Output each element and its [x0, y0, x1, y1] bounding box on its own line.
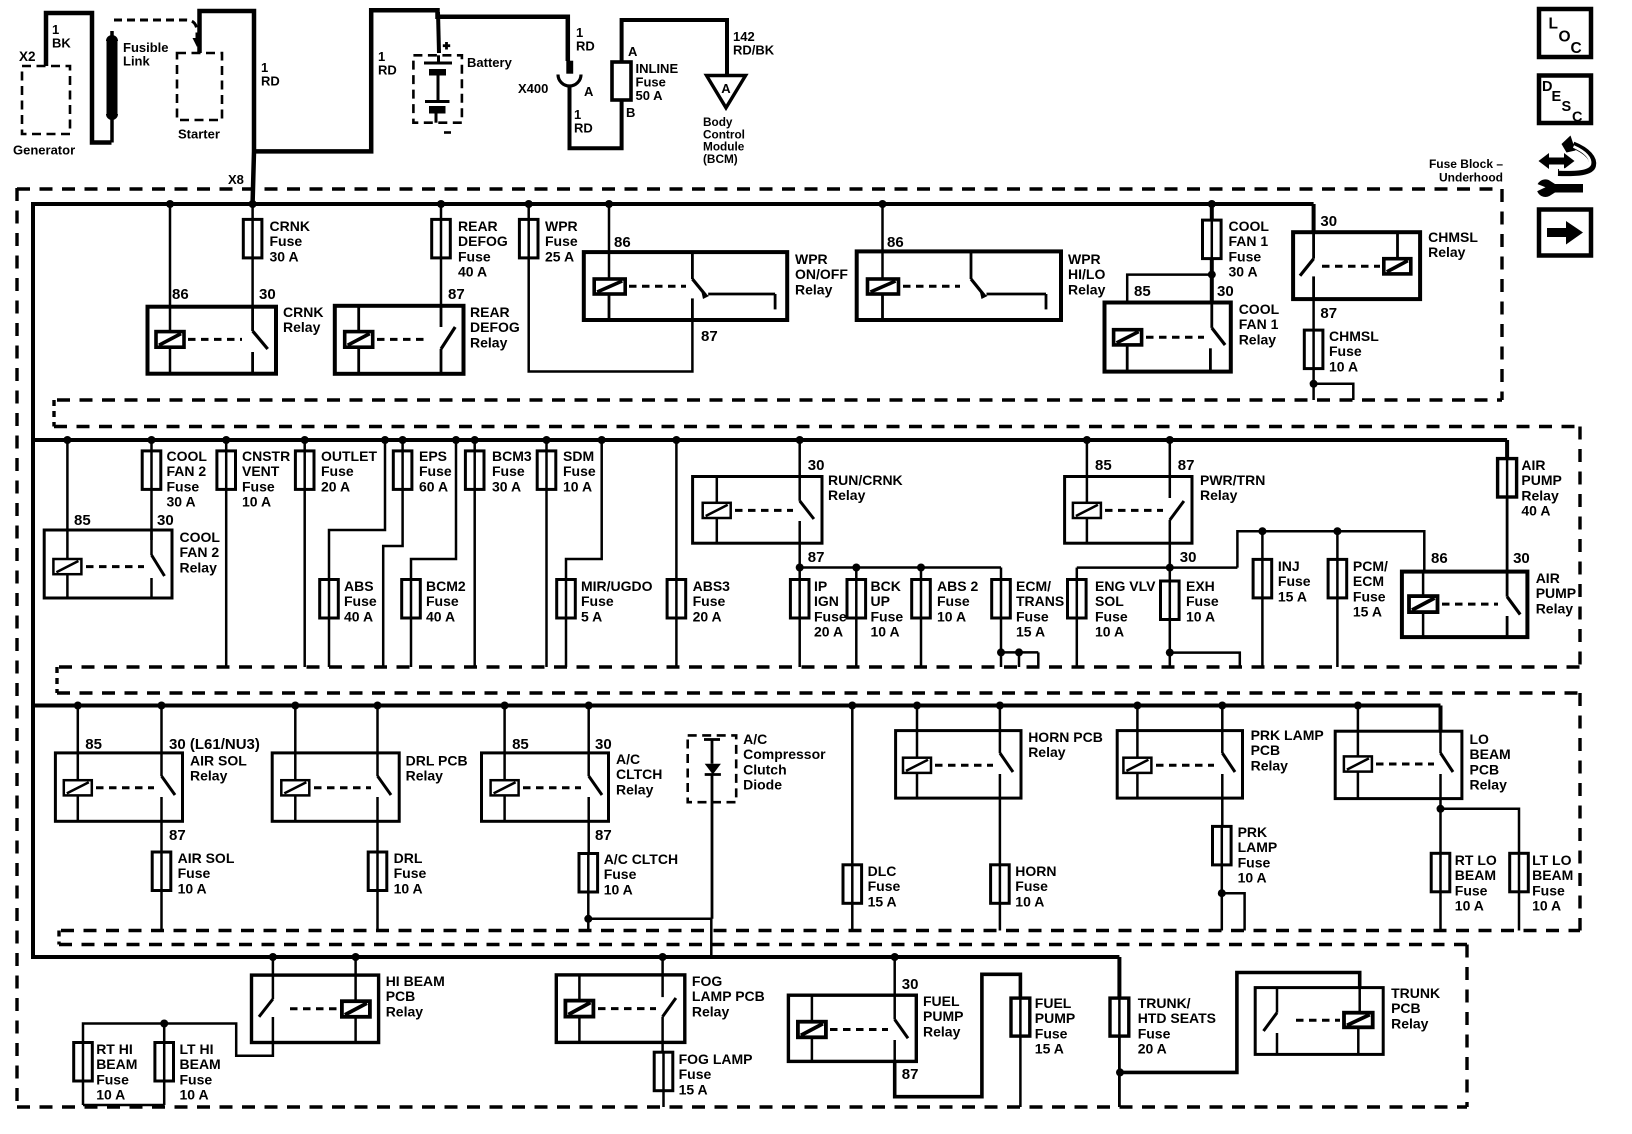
- svg-text:Relay: Relay: [1200, 487, 1238, 503]
- svg-text:RD: RD: [378, 62, 397, 77]
- svg-text:SOL: SOL: [1095, 593, 1124, 609]
- fusible link: [106, 31, 169, 143]
- svg-text:Fuse: Fuse: [868, 878, 901, 894]
- relay FOG LAMP PCB: [556, 973, 764, 1042]
- svg-text:Fuse: Fuse: [458, 248, 491, 264]
- svg-text:87: 87: [701, 328, 718, 345]
- svg-text:ABS 2: ABS 2: [937, 578, 978, 594]
- svg-text:Relay: Relay: [1068, 281, 1106, 297]
- svg-text:30: 30: [259, 286, 276, 303]
- svg-text:87: 87: [1320, 305, 1337, 322]
- relay A/C CLTCH: [482, 751, 663, 821]
- relay WPR HI/LO: [857, 251, 1106, 320]
- svg-text:FAN 2: FAN 2: [167, 463, 207, 479]
- fuse BCK UP 10A: [847, 564, 903, 668]
- fuse PRK LAMP 10A: [1213, 798, 1278, 886]
- fuse block dashed connector left row2-3: [55, 667, 58, 693]
- svg-text:Relay: Relay: [386, 1003, 424, 1019]
- fuse INJ 15A: [1253, 527, 1311, 667]
- svg-text:(BCM): (BCM): [703, 152, 738, 166]
- svg-text:TRANS: TRANS: [1016, 593, 1064, 609]
- svg-text:30: 30: [902, 976, 919, 993]
- svg-text:30 (L61/NU3): 30 (L61/NU3): [169, 736, 260, 753]
- wire bus to COOL FAN 1 fuse: [1208, 200, 1216, 220]
- svg-text:60 A: 60 A: [419, 478, 448, 494]
- svg-text:10 A: 10 A: [1238, 870, 1267, 886]
- svg-text:COOL: COOL: [1239, 301, 1280, 317]
- wire AIR PUMP fuse to relay pin 30: [1507, 497, 1530, 572]
- wire inline fuse to BCM: [622, 20, 775, 74]
- svg-text:FOG: FOG: [692, 973, 722, 989]
- svg-text:TRUNK/: TRUNK/: [1138, 995, 1191, 1011]
- svg-text:S: S: [1562, 99, 1572, 115]
- svg-text:Relay: Relay: [1239, 331, 1277, 347]
- svg-text:ECM/: ECM/: [1016, 578, 1051, 594]
- fuse COOL FAN 1 30A: [1203, 218, 1270, 280]
- svg-text:BK: BK: [52, 35, 71, 50]
- svg-text:Fuse: Fuse: [426, 593, 459, 609]
- icon LOC box: [1539, 9, 1591, 57]
- relay PWR/TRN: [1065, 472, 1266, 543]
- wire bus3 to A/C CLTCH relay pin 85: [501, 702, 529, 781]
- wire WPR fuse to WPR ON/OFF relay pin 87: [529, 258, 718, 372]
- solid box left edge: [31, 202, 35, 959]
- svg-text:ABS3: ABS3: [693, 578, 731, 594]
- svg-text:C: C: [1572, 110, 1583, 126]
- svg-text:AIR SOL: AIR SOL: [178, 850, 235, 866]
- relay CHMSL: [1293, 229, 1478, 299]
- wire generator to fusible link: [46, 13, 112, 143]
- wire bus2 to PWR/TRN relay pin 87: [1166, 436, 1195, 477]
- svg-text:Relay: Relay: [470, 334, 508, 350]
- svg-text:RD/BK: RD/BK: [733, 42, 775, 57]
- wire bus2 to MIR/UGDO fuse: [566, 436, 606, 580]
- svg-text:Fuse: Fuse: [1016, 608, 1049, 624]
- fuse BCM2 40A: [402, 578, 466, 667]
- node PRK LAMP fuse output: [1218, 865, 1245, 931]
- svg-text:Relay: Relay: [1251, 757, 1289, 773]
- svg-text:15 A: 15 A: [868, 893, 897, 909]
- wire X400 to inline fuse: [570, 86, 622, 148]
- fuse REAR DEFOG 40A: [432, 218, 508, 280]
- battery: [413, 42, 512, 133]
- svg-text:A/C: A/C: [616, 751, 640, 767]
- svg-text:ENG VLV: ENG VLV: [1095, 578, 1156, 594]
- node ECM/TRANS branch comb: [997, 648, 1038, 667]
- wire bus to REAR DEFOG fuse: [437, 200, 445, 219]
- svg-text:86: 86: [172, 286, 189, 303]
- svg-text:ABS: ABS: [344, 578, 374, 594]
- svg-text:FAN 1: FAN 1: [1229, 233, 1269, 249]
- svg-text:PWR/TRN: PWR/TRN: [1200, 472, 1265, 488]
- svg-text:RT HI: RT HI: [96, 1041, 133, 1057]
- fuse EPS 60A: [383, 436, 452, 667]
- svg-text:HTD SEATS: HTD SEATS: [1138, 1010, 1216, 1026]
- svg-text:30: 30: [1320, 213, 1337, 230]
- svg-text:BCK: BCK: [871, 578, 901, 594]
- svg-text:10 A: 10 A: [1329, 358, 1358, 374]
- svg-text:Fuse: Fuse: [1353, 588, 1386, 604]
- svg-text:LT LO: LT LO: [1532, 852, 1572, 868]
- svg-text:10 A: 10 A: [1095, 624, 1124, 640]
- svg-text:RD: RD: [261, 73, 280, 88]
- wire OUTLET fuse drop: [295, 436, 377, 667]
- svg-text:RD: RD: [574, 120, 593, 135]
- svg-text:20 A: 20 A: [693, 608, 722, 624]
- body control module BCM triangle: [703, 76, 746, 166]
- svg-text:30 A: 30 A: [270, 248, 299, 264]
- svg-text:A: A: [628, 44, 638, 59]
- svg-text:DEFOG: DEFOG: [470, 319, 520, 335]
- svg-text:PRK: PRK: [1238, 824, 1268, 840]
- wire PWR/TRN pin 30 rail: [1077, 531, 1425, 571]
- svg-text:Fuse: Fuse: [1532, 882, 1565, 898]
- fuse DLC 15A: [843, 702, 900, 931]
- svg-text:Fuse: Fuse: [492, 463, 525, 479]
- svg-text:Link: Link: [123, 53, 150, 68]
- relay HORN PCB: [896, 729, 1103, 798]
- svg-text:BCM2: BCM2: [426, 578, 466, 594]
- node LO BEAM output split: [1437, 799, 1520, 854]
- svg-text:15 A: 15 A: [679, 1081, 708, 1097]
- wire RUN/CRNK relay pin 87 rail: [796, 543, 1001, 571]
- svg-text:PCB: PCB: [1470, 761, 1500, 777]
- fuse TRUNK/HTD SEATS 20A: [1110, 995, 1216, 1057]
- svg-text:Relay: Relay: [406, 768, 444, 784]
- svg-text:IGN: IGN: [814, 593, 839, 609]
- fuse BCM3 30A: [465, 436, 531, 667]
- svg-text:Relay: Relay: [1028, 744, 1066, 760]
- svg-text:10 A: 10 A: [96, 1087, 125, 1103]
- wire bus4 end to TRUNK/HTD SEATS fuse: [1117, 957, 1121, 998]
- svg-text:FAN 2: FAN 2: [180, 544, 220, 560]
- fuse ENG VLV SOL 10A: [1068, 568, 1157, 667]
- wire bus2 to COOL FAN 2 relay pin 85: [63, 436, 90, 559]
- svg-text:Relay: Relay: [190, 768, 228, 784]
- wire bus3 end to LO BEAM relay switch: [1439, 706, 1443, 732]
- svg-text:FUEL: FUEL: [923, 993, 960, 1009]
- wire bus3 to PRK LAMP relay pins: [1133, 702, 1226, 758]
- relay AIR SOL: [55, 753, 247, 822]
- svg-text:EXH: EXH: [1186, 578, 1215, 594]
- svg-text:Generator: Generator: [13, 143, 75, 158]
- fuse LT HI BEAM 10A: [155, 1041, 221, 1105]
- svg-text:ON/OFF: ON/OFF: [795, 266, 848, 282]
- svg-text:Fuse: Fuse: [1015, 878, 1048, 894]
- fuse A/C CLTCH 10A: [579, 851, 678, 897]
- diode A/C compressor clutch: [688, 731, 826, 919]
- svg-text:85: 85: [1134, 283, 1151, 300]
- wire bus3 to LO BEAM relay coil: [1354, 702, 1362, 757]
- svg-text:A: A: [721, 81, 731, 96]
- svg-text:40 A: 40 A: [458, 264, 487, 280]
- svg-text:Fuse: Fuse: [871, 608, 904, 624]
- svg-text:PCB: PCB: [1391, 1000, 1421, 1016]
- fuse block dashed border top: [17, 187, 1502, 190]
- svg-text:Diode: Diode: [743, 777, 782, 793]
- fuse block dashed border row2 bottom: [59, 665, 1580, 668]
- svg-text:O: O: [1559, 29, 1571, 46]
- fuse block dashed connector left row1-2: [52, 400, 55, 427]
- svg-text:Relay: Relay: [828, 487, 866, 503]
- svg-text:SDM: SDM: [563, 448, 594, 464]
- svg-text:10 A: 10 A: [604, 881, 633, 897]
- wire bus3 to A/C CLTCH relay pin 30: [585, 702, 612, 754]
- svg-text:CRNK: CRNK: [283, 304, 323, 320]
- fuse ABS3 20A: [667, 436, 730, 667]
- svg-text:86: 86: [1431, 550, 1448, 567]
- svg-text:Relay: Relay: [1536, 600, 1574, 616]
- svg-text:Underhood: Underhood: [1439, 171, 1503, 185]
- svg-text:PUMP: PUMP: [1536, 585, 1576, 601]
- wire CNSTR VENT fuse drop: [217, 436, 290, 667]
- svg-text:PUMP: PUMP: [1035, 1010, 1075, 1026]
- svg-text:BEAM: BEAM: [1455, 867, 1496, 883]
- svg-text:40 A: 40 A: [1521, 503, 1550, 519]
- svg-text:87: 87: [1178, 457, 1195, 474]
- svg-text:10 A: 10 A: [1015, 893, 1044, 909]
- power bus row4 (solid box bottom): [33, 955, 1119, 959]
- power bus row2: [33, 438, 1507, 442]
- wire bus4 to HI BEAM relay pins: [269, 953, 360, 1001]
- svg-text:Relay: Relay: [923, 1023, 961, 1039]
- wire bus2 to PWR/TRN relay pin 85: [1083, 436, 1112, 503]
- svg-text:Relay: Relay: [1428, 244, 1466, 260]
- svg-text:40 A: 40 A: [344, 608, 373, 624]
- starter box: [177, 53, 222, 142]
- svg-text:20 A: 20 A: [1138, 1041, 1167, 1057]
- svg-text:Relay: Relay: [1521, 487, 1559, 503]
- fuse FOG LAMP 15A: [654, 1042, 752, 1107]
- svg-text:Fuse: Fuse: [545, 233, 578, 249]
- svg-text:DEFOG: DEFOG: [458, 233, 508, 249]
- wire bus3 to HORN relay pins: [913, 702, 1004, 758]
- svg-text:RT LO: RT LO: [1455, 852, 1497, 868]
- svg-text:Relay: Relay: [180, 559, 218, 575]
- svg-text:Fuse: Fuse: [1329, 343, 1362, 359]
- fuse AIR PUMP Relay 40A: [1498, 457, 1562, 519]
- svg-text:86: 86: [614, 234, 631, 251]
- svg-text:WPR: WPR: [795, 251, 828, 267]
- svg-text:IP: IP: [814, 578, 827, 594]
- node EXH branch: [1166, 649, 1240, 667]
- svg-text:87: 87: [169, 827, 186, 844]
- svg-text:Fuse: Fuse: [178, 865, 211, 881]
- svg-text:Fuse: Fuse: [1229, 248, 1262, 264]
- svg-text:E: E: [1552, 89, 1562, 105]
- svg-text:Fuse: Fuse: [394, 865, 427, 881]
- svg-text:AIR: AIR: [1521, 457, 1545, 473]
- fuse ECM/TRANS 15A: [992, 568, 1065, 668]
- svg-text:Fuse: Fuse: [1035, 1025, 1068, 1041]
- svg-text:Fuse: Fuse: [419, 463, 452, 479]
- svg-text:AIR SOL: AIR SOL: [190, 753, 247, 769]
- svg-text:COOL: COOL: [1229, 218, 1270, 234]
- svg-text:15 A: 15 A: [1353, 604, 1382, 620]
- svg-text:Fuse Block –: Fuse Block –: [1429, 157, 1503, 171]
- icon wrench with arrows: [1534, 136, 1593, 197]
- svg-text:10 A: 10 A: [394, 880, 423, 896]
- svg-text:AIR: AIR: [1536, 570, 1560, 586]
- svg-text:WPR: WPR: [545, 218, 578, 234]
- svg-text:HI/LO: HI/LO: [1068, 266, 1105, 282]
- svg-text:20 A: 20 A: [814, 624, 843, 640]
- svg-text:10 A: 10 A: [242, 494, 271, 510]
- svg-text:87: 87: [902, 1066, 919, 1083]
- svg-text:CNSTR: CNSTR: [242, 448, 290, 464]
- wire bus3 to AIR SOL relay pin 30: [158, 702, 260, 754]
- svg-text:RUN/CRNK: RUN/CRNK: [828, 472, 903, 488]
- icon DESC box: [1539, 76, 1591, 126]
- svg-text:B: B: [626, 105, 635, 120]
- relay RUN/CRNK: [693, 472, 903, 543]
- fuse SDM 10A: [537, 436, 596, 667]
- fuse block dashed border row4 top: [59, 943, 1467, 946]
- power bus row3: [33, 704, 1441, 708]
- svg-text:DRL PCB: DRL PCB: [406, 753, 468, 769]
- svg-text:Fuse: Fuse: [1138, 1025, 1171, 1041]
- svg-text:85: 85: [1095, 457, 1112, 474]
- svg-text:BCM3: BCM3: [492, 448, 532, 464]
- wire CHMSL fuse exits block: [1310, 369, 1354, 400]
- svg-text:15 A: 15 A: [1035, 1041, 1064, 1057]
- svg-text:Fuse: Fuse: [1278, 573, 1311, 589]
- wire bus2 to RUN/CRNK relay pin 30: [796, 436, 825, 477]
- svg-text:HORN: HORN: [1015, 863, 1056, 879]
- node A/C CLTCH fuse output: [584, 892, 711, 957]
- svg-text:OUTLET: OUTLET: [321, 448, 377, 464]
- svg-text:Fuse: Fuse: [581, 593, 614, 609]
- fuse block dashed border row1 bottom: [57, 398, 1502, 401]
- relay TRUNK PCB: [1255, 985, 1440, 1054]
- svg-text:X400: X400: [518, 81, 548, 96]
- svg-text:Relay: Relay: [692, 1003, 730, 1019]
- fuse block underhood label: [1429, 157, 1503, 185]
- svg-text:CHMSL: CHMSL: [1329, 328, 1379, 344]
- svg-text:BEAM: BEAM: [96, 1056, 137, 1072]
- svg-text:FAN 1: FAN 1: [1239, 316, 1279, 332]
- wire bus to WPR ON/OFF relay pin 86: [605, 200, 631, 279]
- svg-text:5 A: 5 A: [581, 608, 602, 624]
- svg-text:10 A: 10 A: [937, 608, 966, 624]
- svg-text:TRUNK: TRUNK: [1391, 985, 1440, 1001]
- svg-text:ECM: ECM: [1353, 573, 1384, 589]
- svg-text:30 A: 30 A: [167, 494, 196, 510]
- svg-text:15 A: 15 A: [1016, 624, 1045, 640]
- svg-text:30: 30: [1217, 283, 1234, 300]
- svg-text:BEAM: BEAM: [180, 1056, 221, 1072]
- relay DRL PCB: [272, 753, 467, 822]
- svg-text:CHMSL: CHMSL: [1428, 229, 1478, 245]
- svg-text:PUMP: PUMP: [1521, 472, 1561, 488]
- fuse HORN 10A: [991, 798, 1057, 930]
- svg-text:Fuse: Fuse: [1238, 854, 1271, 870]
- svg-text:LT HI: LT HI: [180, 1041, 214, 1057]
- svg-text:Relay: Relay: [283, 319, 321, 335]
- svg-text:L: L: [1549, 16, 1558, 33]
- relay COOL FAN 2: [44, 529, 220, 598]
- wire bus 1 end to CHMSL relay pin 30: [1314, 204, 1337, 232]
- svg-text:Fuse: Fuse: [1186, 593, 1219, 609]
- wire bus3 to AIR SOL relay pin 85: [74, 702, 102, 781]
- relay AIR PUMP: [1402, 550, 1576, 637]
- fuse CRNK 30A: [243, 204, 310, 264]
- svg-text:REAR: REAR: [470, 304, 510, 320]
- svg-text:30 A: 30 A: [1229, 264, 1258, 280]
- relay WPR ON/OFF: [584, 251, 849, 320]
- wire bus4 to FUEL PUMP relay pin 30: [891, 953, 919, 995]
- svg-text:10 A: 10 A: [1532, 898, 1561, 914]
- fuse FUEL PUMP 15A: [1011, 995, 1075, 1107]
- svg-text:Fuse: Fuse: [563, 463, 596, 479]
- svg-text:WPR: WPR: [1068, 251, 1101, 267]
- svg-text:BEAM: BEAM: [1532, 867, 1573, 883]
- svg-text:Fuse: Fuse: [1455, 882, 1488, 898]
- svg-text:A: A: [584, 84, 594, 99]
- node X8 junction on bus 1: [249, 200, 257, 208]
- svg-text:86: 86: [887, 234, 904, 251]
- wire REAR DEFOG fuse to relay pin 87: [441, 258, 465, 306]
- wire COOL FAN 2 fuse to relay pin 30: [152, 489, 174, 540]
- svg-text:30: 30: [1180, 549, 1197, 566]
- wire bus2 to BCM2 fuse: [411, 436, 460, 580]
- fuse LT LO BEAM 10A: [1510, 852, 1574, 931]
- power bus row1: [33, 202, 1314, 206]
- wire starter to X8 node: [200, 11, 280, 203]
- svg-text:Fuse: Fuse: [1095, 608, 1128, 624]
- svg-text:20 A: 20 A: [321, 478, 350, 494]
- svg-text:LAMP: LAMP: [1238, 839, 1278, 855]
- svg-text:HORN PCB: HORN PCB: [1028, 729, 1103, 745]
- svg-text:HI BEAM: HI BEAM: [386, 973, 445, 989]
- wire FUEL PUMP relay pin 87 loop to fuse: [895, 974, 1021, 1096]
- svg-text:CRNK: CRNK: [270, 218, 310, 234]
- svg-text:REAR: REAR: [458, 218, 498, 234]
- fuse block dashed border row2 right: [1578, 427, 1581, 668]
- svg-text:Fuse: Fuse: [180, 1071, 213, 1087]
- svg-text:Fuse: Fuse: [814, 608, 847, 624]
- svg-text:30: 30: [1513, 550, 1530, 567]
- wire bus3 to DRL relay pins: [291, 702, 381, 781]
- svg-text:87: 87: [448, 286, 465, 303]
- svg-text:DRL: DRL: [394, 850, 423, 866]
- svg-text:87: 87: [595, 827, 612, 844]
- svg-text:Relay: Relay: [795, 281, 833, 297]
- svg-text:Relay: Relay: [616, 781, 654, 797]
- svg-text:30: 30: [808, 457, 825, 474]
- fuse EXH 10A: [1161, 568, 1219, 667]
- svg-text:30: 30: [157, 512, 174, 529]
- fuse MIR/UGDO 5A: [557, 578, 653, 667]
- svg-text:COOL: COOL: [180, 529, 221, 545]
- wire AIR SOL relay pin 87 to fuse: [162, 821, 186, 852]
- svg-text:Relay: Relay: [1391, 1015, 1429, 1031]
- fuse DRL 10A: [368, 821, 426, 930]
- svg-text:Fuse: Fuse: [604, 866, 637, 882]
- svg-text:Fuse: Fuse: [679, 1066, 712, 1082]
- svg-text:EPS: EPS: [419, 448, 447, 464]
- svg-text:DLC: DLC: [868, 863, 897, 879]
- fuse CHMSL 10A: [1304, 328, 1379, 374]
- connector X2 label and generator box: [13, 22, 75, 158]
- svg-text:PRK LAMP: PRK LAMP: [1251, 727, 1324, 743]
- svg-text:Fuse: Fuse: [242, 478, 275, 494]
- fuse COOL FAN 2 30A: [142, 436, 207, 510]
- wire bus2 end to AIR PUMP relay fuse: [1505, 440, 1509, 459]
- fuse block dashed border row1 right: [1500, 189, 1503, 400]
- svg-text:Fuse: Fuse: [270, 233, 303, 249]
- svg-text:LO: LO: [1470, 731, 1490, 747]
